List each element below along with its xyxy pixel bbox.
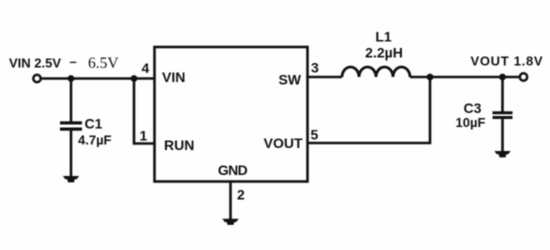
wire GND stub (229, 182, 232, 220)
wire C1 lower to ground (70, 131, 73, 177)
svg-text:VIN: VIN (162, 69, 185, 85)
wire C3 branch upper (501, 77, 504, 112)
wire VOUT rail (410, 76, 519, 79)
svg-text:3: 3 (311, 60, 319, 76)
node junction C3 (499, 74, 506, 81)
IC U1 body (155, 47, 308, 182)
svg-text:SW: SW (278, 72, 301, 88)
svg-text:VIN 2.5V: VIN 2.5V (9, 56, 61, 71)
svg-text:6.5V: 6.5V (88, 55, 119, 72)
svg-text:L1: L1 (375, 29, 392, 45)
node junction C1/VIN (68, 75, 75, 82)
ground (C1) (63, 176, 79, 182)
svg-text:C3: C3 (464, 100, 482, 116)
inductor L1 (342, 67, 410, 77)
svg-text:2: 2 (237, 187, 245, 203)
wire RUN branch (134, 79, 155, 144)
svg-text:2.2µH: 2.2µH (365, 45, 403, 61)
ground (IC GND) (222, 219, 238, 225)
terminal VOUT (520, 73, 527, 80)
node junction feedback (427, 74, 434, 81)
wire SW to inductor (308, 76, 343, 79)
wire VIN rail (42, 77, 155, 80)
wire feedback to VOUT pin (308, 77, 431, 143)
svg-text:5: 5 (311, 127, 319, 143)
svg-text:VOUT 1.8V: VOUT 1.8V (471, 54, 544, 69)
svg-text:GND: GND (218, 162, 248, 178)
capacitor C1 (60, 121, 82, 130)
svg-text:1: 1 (140, 128, 148, 144)
ground (C3) (494, 151, 510, 157)
svg-text:VOUT: VOUT (264, 135, 303, 151)
wire C1 branch upper (70, 79, 73, 123)
svg-text:10µF: 10µF (456, 115, 486, 130)
node junction RUN/VIN (131, 75, 138, 82)
wire C3 lower to ground (501, 119, 504, 152)
svg-text:C1: C1 (85, 116, 103, 132)
terminal VIN (33, 75, 40, 82)
svg-text:4.7µF: 4.7µF (78, 133, 112, 148)
svg-text:4: 4 (142, 60, 150, 76)
capacitor C3 (493, 111, 513, 119)
svg-text:RUN: RUN (164, 137, 194, 153)
svg-text:–: – (70, 54, 77, 69)
